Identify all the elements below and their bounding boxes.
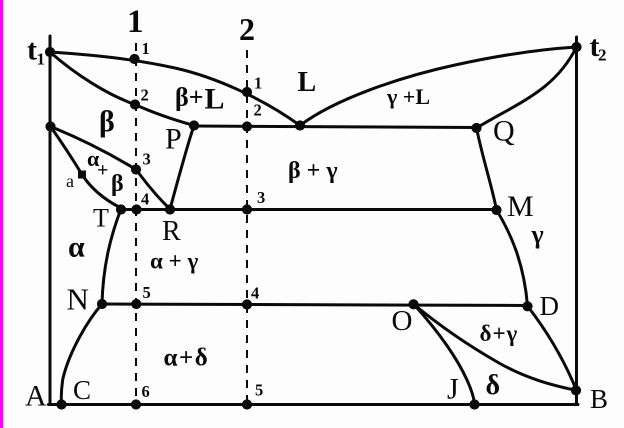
svg-text:A: A (25, 380, 47, 413)
svg-text:N: N (67, 282, 89, 317)
svg-text:Q: Q (493, 115, 515, 148)
svg-text:+: + (97, 160, 108, 182)
point 2 on line 1 (130, 99, 140, 109)
point D (522, 301, 532, 311)
svg-text:β: β (111, 171, 124, 197)
point M (491, 205, 501, 215)
point 1 on line 1 (129, 54, 139, 64)
svg-text:2: 2 (141, 86, 149, 105)
svg-text:2: 2 (239, 11, 255, 47)
horizontal N-O-D (102, 304, 528, 306)
point R (165, 204, 175, 214)
curve Q to t2 (477, 47, 577, 128)
eutectoid horizontal T-R-M (121, 208, 497, 211)
point T (116, 204, 126, 214)
svg-text:1: 1 (254, 74, 262, 93)
svg-text:β: β (99, 105, 115, 138)
svg-text:α+δ: α+δ (164, 345, 210, 372)
curve P to R (170, 126, 194, 210)
svg-text:2: 2 (598, 46, 607, 65)
svg-text:6: 6 (142, 382, 150, 401)
solidus curve t1 to P (50, 52, 194, 126)
point P (189, 120, 199, 130)
magenta page edge stripe (0, 0, 3, 428)
svg-text:M: M (507, 190, 534, 223)
left axis (49, 36, 52, 404)
point 5 on line 1 (131, 299, 141, 309)
point J (469, 399, 479, 409)
svg-text:α: α (68, 231, 85, 264)
svg-text:δ+γ: δ+γ (480, 321, 519, 346)
svg-text:B: B (590, 384, 608, 414)
liquidus curve t1 to L eutectic point (50, 52, 300, 126)
solvus lower lens curve axis point through a to T (51, 127, 122, 209)
curve O to J (414, 304, 475, 405)
solvus upper lens curve axis point to 3 to R (51, 127, 171, 210)
svg-text:1: 1 (37, 50, 46, 69)
right axis (575, 37, 578, 404)
dashed composition line 1 (135, 43, 137, 404)
svg-text:C: C (73, 375, 91, 405)
point t1 (45, 47, 55, 57)
svg-text:a: a (66, 171, 74, 191)
curve M to D (497, 210, 528, 306)
svg-text:R: R (162, 216, 181, 247)
svg-text:3: 3 (257, 188, 265, 207)
point a (78, 171, 86, 179)
svg-text:t: t (27, 34, 37, 67)
line O to B (414, 304, 577, 390)
point 2 on line 2 (242, 121, 252, 131)
curve N to C (61, 304, 102, 405)
point N (97, 299, 107, 309)
bottom axis A-B (49, 403, 579, 406)
curve T to N (102, 209, 121, 304)
point 1 on line 2 (242, 87, 252, 97)
point L eutectic (295, 120, 305, 130)
svg-text:5: 5 (143, 283, 151, 302)
point 3 on line 1 (131, 164, 141, 174)
svg-text:γ: γ (531, 220, 544, 249)
point 4 on line 1 (131, 204, 141, 214)
svg-text:L: L (205, 83, 225, 116)
svg-text:P: P (165, 123, 182, 156)
svg-text:β + γ: β + γ (288, 158, 338, 184)
svg-text:2: 2 (254, 101, 262, 120)
dashed composition line 2 (246, 50, 248, 404)
liquidus curve L eutectic point to t2 (300, 47, 577, 126)
svg-text:3: 3 (143, 150, 151, 169)
svg-text:δ: δ (486, 370, 501, 401)
svg-text:T: T (93, 204, 109, 233)
svg-text:β+: β+ (175, 83, 204, 112)
point Q (471, 123, 481, 133)
svg-text:D: D (540, 291, 560, 321)
point O (408, 299, 418, 309)
svg-text:4: 4 (251, 284, 259, 303)
svg-text:O: O (392, 305, 413, 337)
peritectic horizontal P-Q (194, 126, 477, 128)
curve D to B (528, 306, 577, 390)
svg-text:L: L (298, 67, 317, 98)
point 5 on line 2 (242, 399, 252, 409)
svg-text:1: 1 (142, 39, 150, 58)
svg-text:5: 5 (255, 381, 263, 400)
point 4 on line 2 (242, 299, 252, 309)
svg-text:γ +L: γ +L (386, 84, 430, 109)
point 3 on line 2 (242, 204, 252, 214)
svg-text:α + γ: α + γ (150, 249, 198, 274)
point C (56, 399, 66, 409)
svg-text:J: J (447, 373, 459, 406)
curve Q to M (477, 128, 497, 210)
point 6 on line 1 (131, 399, 141, 409)
point t2 (571, 42, 581, 52)
svg-text:1: 1 (127, 4, 144, 40)
svg-text:4: 4 (141, 190, 149, 209)
point on left axis at alpha-beta origin (45, 121, 55, 131)
point B (571, 385, 581, 395)
